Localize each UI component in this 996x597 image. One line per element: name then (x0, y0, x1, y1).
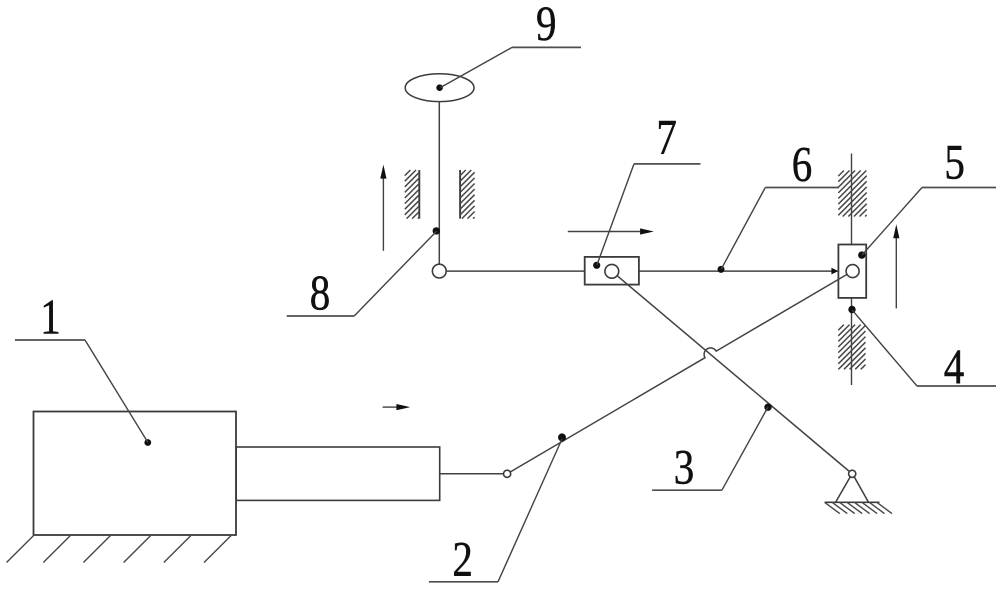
leader dot 1 in cylinder body (144, 439, 151, 446)
joint circle 2 (rod end) (504, 470, 511, 477)
svg-text:8: 8 (310, 264, 330, 320)
slider block 5 (838, 245, 866, 298)
svg-text:6: 6 (792, 136, 812, 192)
arrowhead at slider 5 left edge (831, 268, 838, 275)
right motion arrow above slider 7 (568, 228, 654, 234)
label 9 (441, 0, 582, 88)
wire: horizontal link from joint 8 to slider 5 (446, 270, 836, 272)
svg-text:5: 5 (944, 134, 964, 190)
rail: vertical guide centerline for slider 5 (upper) (851, 154, 853, 245)
piston rod of cylinder 1 (236, 447, 440, 500)
label 7 (597, 108, 701, 265)
fixed pivot triangle (836, 477, 869, 503)
label 4 (852, 310, 996, 394)
hatched guide block below slider 5 (838, 325, 865, 370)
hatched guide block above slider 5 (838, 171, 866, 217)
leader dot 5 in slider block (858, 251, 865, 258)
wire: rod end to joint 2 (440, 473, 504, 475)
ground hatching under cylinder 1 (7, 536, 232, 563)
svg-text:3: 3 (674, 438, 694, 494)
label 1 (15, 289, 148, 443)
link from slider 7 pin to fixed pivot (617, 276, 849, 472)
svg-text:9: 9 (536, 0, 556, 51)
right guide beside rod (edge + hatch) (460, 170, 475, 219)
slider block 7 (585, 257, 639, 285)
up motion arrow near rod 8 (380, 165, 386, 251)
label 8 (287, 231, 437, 320)
left guide beside rod (edge + hatch) (405, 170, 420, 219)
leader dot 4 on rail below slider (848, 306, 855, 313)
pin circle in slider 7 (605, 264, 619, 278)
leader dot 7 in slider block (593, 262, 600, 269)
label 6 (721, 136, 839, 270)
revolute joint circle 8 (432, 264, 446, 278)
label 5 (862, 134, 996, 255)
label 3 (652, 407, 768, 494)
ground hatching under fixed pivot (825, 502, 892, 513)
leader dot 3 on pivot link (764, 404, 771, 411)
up motion arrow near slider 5 (893, 224, 899, 308)
right motion arrow above piston rod (383, 404, 411, 410)
fixed pivot circle (849, 470, 856, 477)
leader dot 6 on horizontal link (718, 266, 725, 273)
svg-text:1: 1 (40, 289, 60, 345)
roller 9 (ellipse) (405, 74, 474, 102)
leader dot 2 on link (558, 433, 566, 441)
label 2 (429, 439, 562, 586)
svg-text:2: 2 (452, 531, 472, 587)
leader dot on roller 9 center (436, 84, 443, 91)
rail: vertical guide centerline for slider 5 (lower) (851, 298, 853, 385)
pin circle in slider 5 (846, 265, 859, 278)
fixed pivot ground line (825, 501, 880, 503)
vertical rod between roller 9 and joint 8 (438, 102, 440, 265)
svg-text:7: 7 (656, 108, 676, 164)
link from joint 2 to slider 5 pin (hops over other link) (510, 275, 846, 472)
cylinder body 1 (34, 412, 237, 536)
leader dot 8 on rod (433, 227, 440, 234)
